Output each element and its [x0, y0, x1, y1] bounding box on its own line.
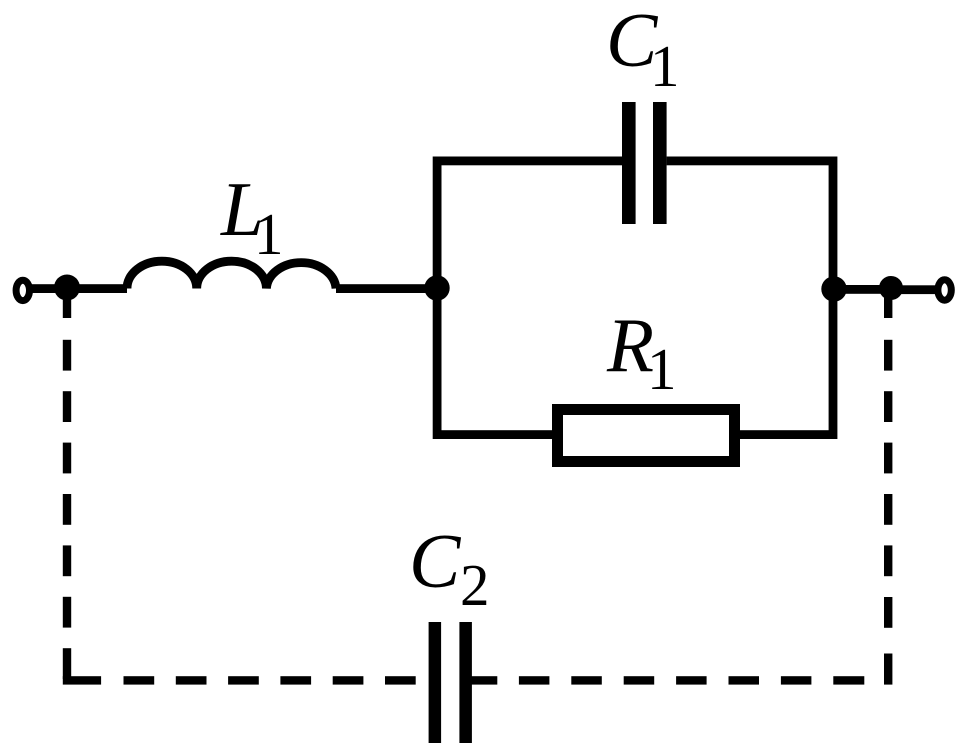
svg-text:C: C [409, 518, 462, 604]
wire [834, 285, 891, 294]
node A [54, 275, 80, 301]
capacitor C2 [429, 622, 472, 743]
wire dashed right vertical [884, 296, 892, 685]
wire [433, 288, 442, 439]
node D [879, 276, 903, 300]
wire [433, 157, 442, 289]
terminal right [938, 280, 951, 300]
wire dashed left vertical [63, 297, 71, 679]
wire [829, 157, 838, 440]
wire dashed bottom left [63, 676, 416, 684]
wire [437, 157, 622, 166]
resistor R1 [558, 410, 735, 462]
wire [667, 157, 833, 166]
wire [740, 430, 833, 439]
label L1 [220, 166, 284, 267]
wire [336, 284, 437, 293]
label R1 [606, 302, 677, 402]
wire [437, 430, 552, 439]
node B [424, 275, 449, 300]
terminal left [16, 280, 29, 300]
wire [891, 285, 937, 294]
wire dashed bottom right [471, 676, 864, 684]
svg-text:2: 2 [460, 552, 490, 618]
label C1 [606, 0, 680, 99]
capacitor C1 [622, 102, 667, 224]
wire [31, 284, 127, 293]
node C [821, 276, 846, 301]
svg-text:1: 1 [650, 33, 680, 99]
label C2 [409, 518, 490, 618]
inductor L1 [127, 261, 336, 288]
svg-text:1: 1 [254, 201, 284, 267]
svg-text:1: 1 [647, 336, 677, 402]
